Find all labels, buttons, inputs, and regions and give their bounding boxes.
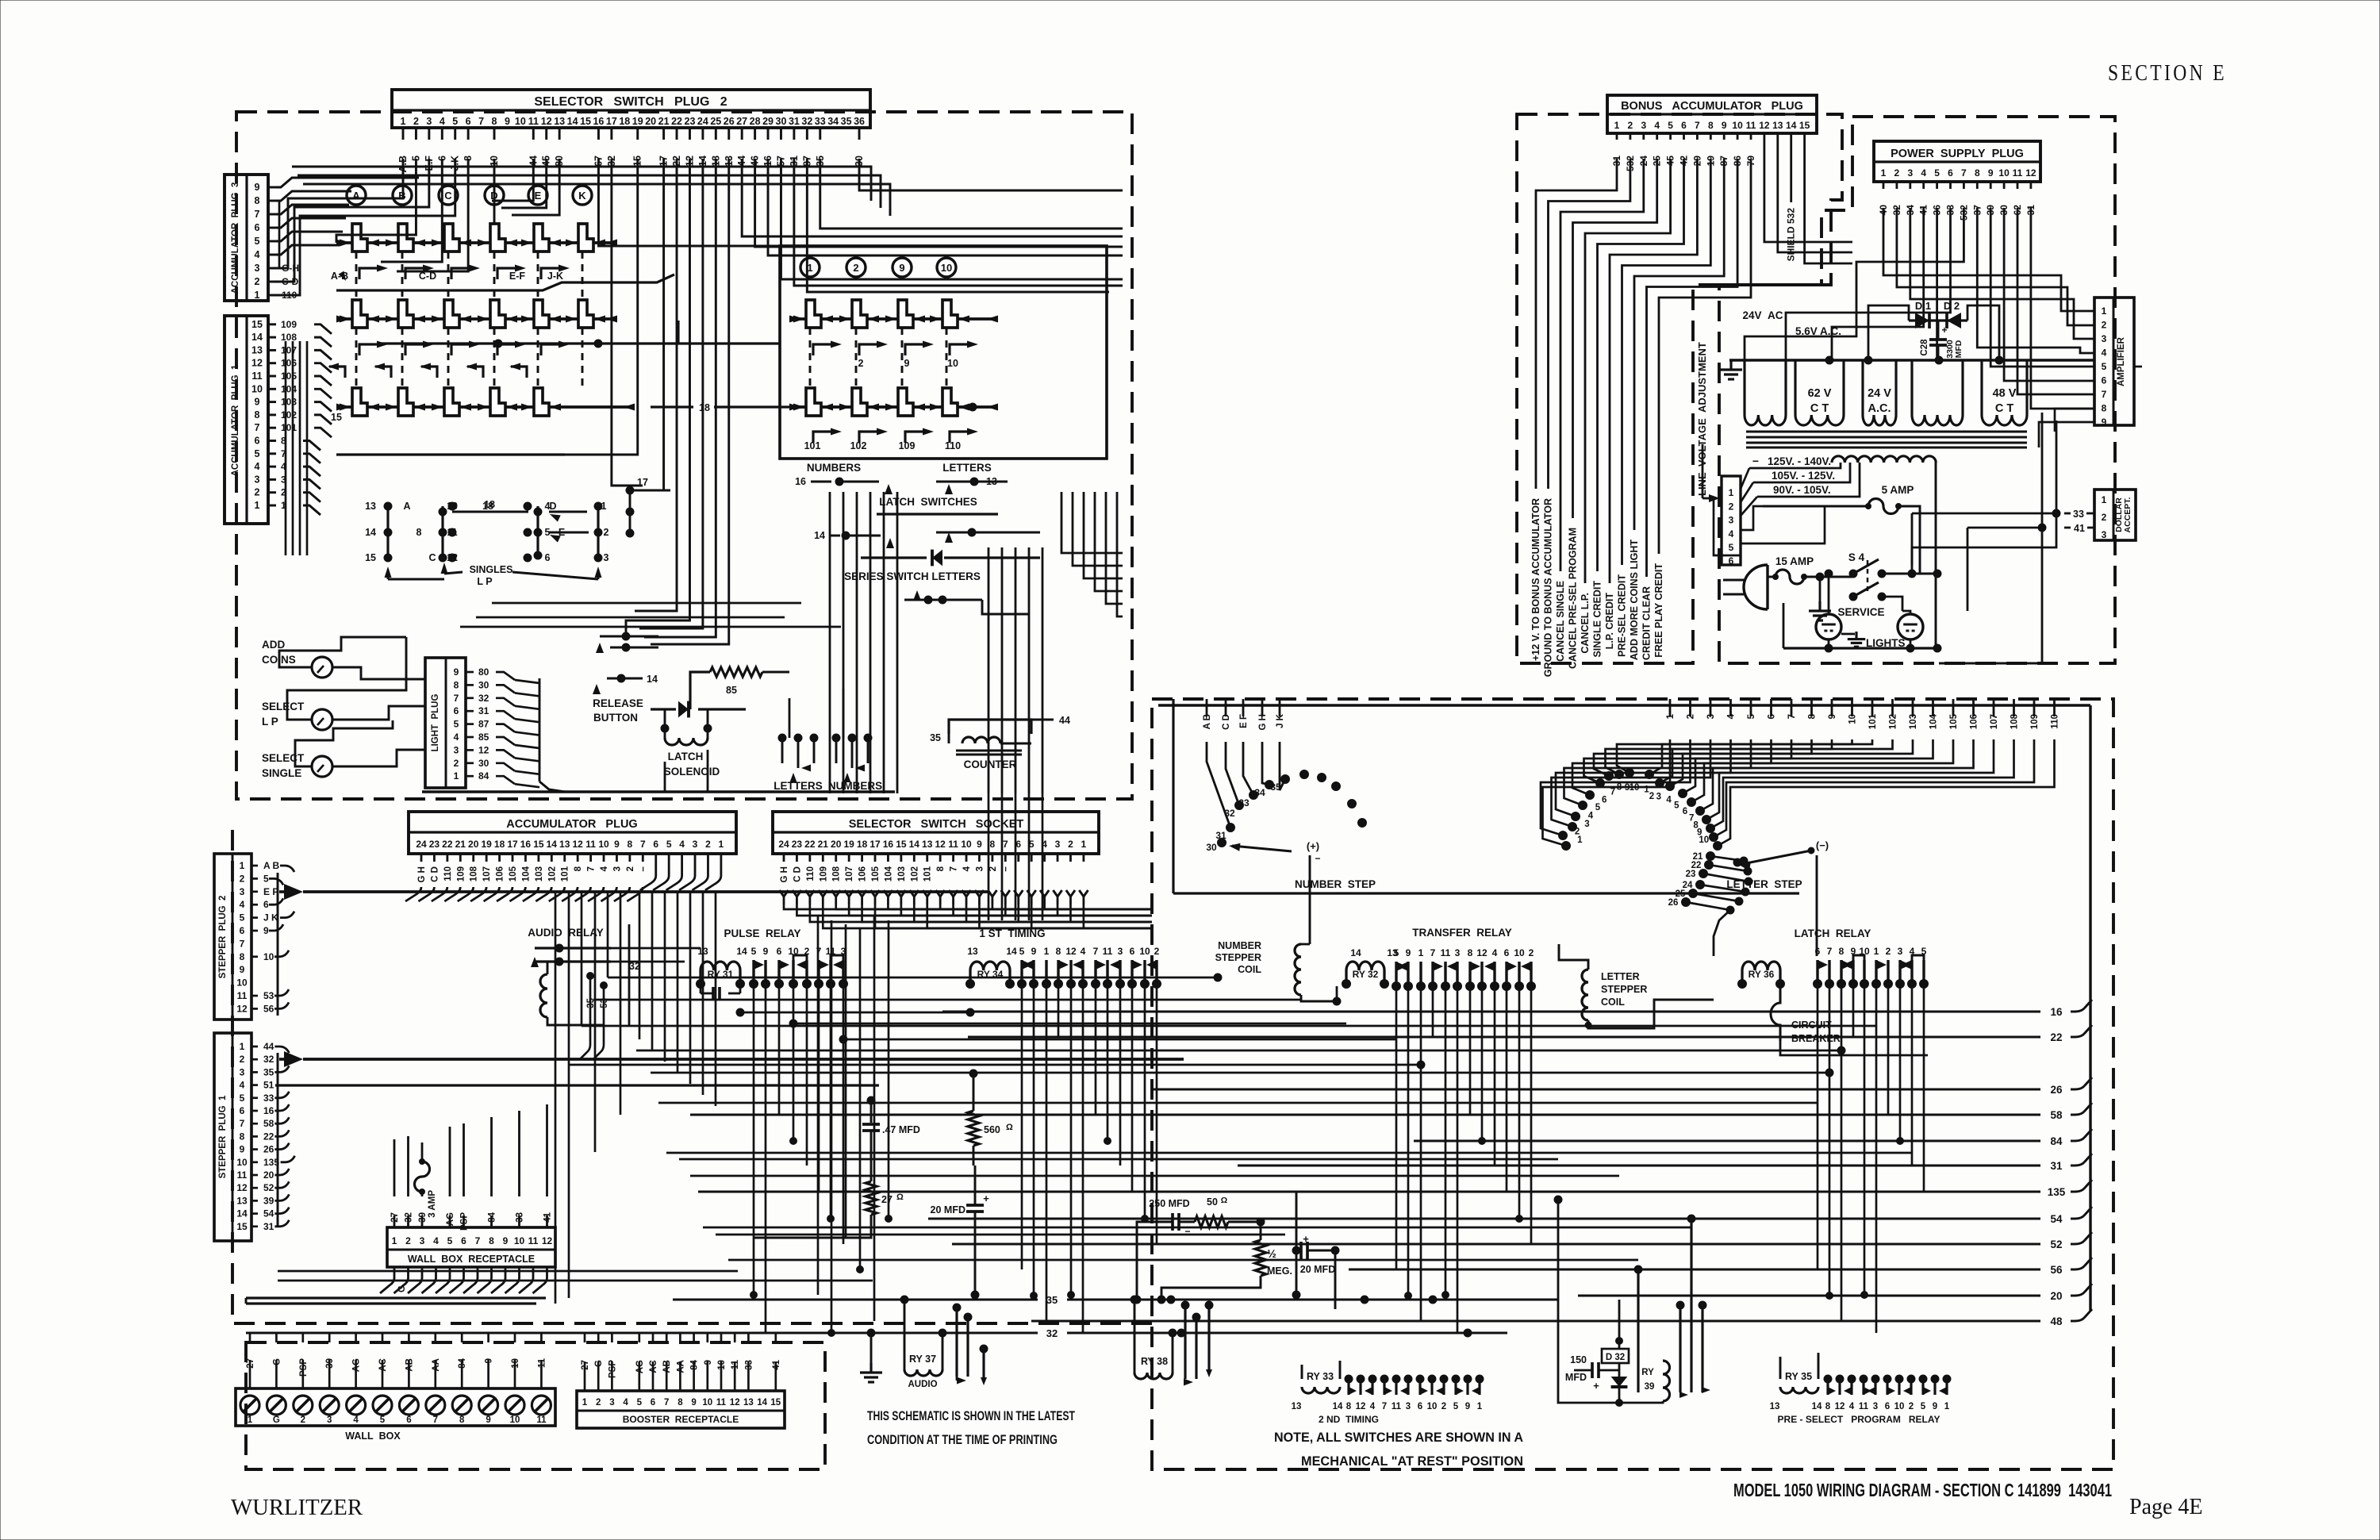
wall box receptacle lower hooks bbox=[380, 1267, 394, 1293]
svg-text:3: 3 bbox=[1055, 839, 1061, 850]
svg-text:4: 4 bbox=[240, 1080, 245, 1091]
svg-text:3: 3 bbox=[2102, 333, 2107, 344]
svg-text:560: 560 bbox=[984, 1124, 1000, 1135]
svg-text:8: 8 bbox=[1346, 1402, 1352, 1411]
svg-text:101: 101 bbox=[923, 866, 933, 881]
svg-text:109: 109 bbox=[899, 440, 916, 451]
svg-text:14: 14 bbox=[1006, 946, 1017, 957]
bonus plug wires to power section bbox=[1764, 133, 1852, 242]
letter switch row2 bus bbox=[381, 342, 780, 344]
svg-text:6: 6 bbox=[1948, 167, 1953, 179]
winding 24V AC bbox=[1861, 360, 1864, 415]
svg-text:PULSE RELAY: PULSE RELAY bbox=[724, 927, 800, 939]
svg-text:11: 11 bbox=[2013, 167, 2023, 179]
connector ACCUMULATOR PLUG 3 bbox=[225, 175, 268, 301]
svg-text:WURLITZER: WURLITZER bbox=[231, 1495, 363, 1520]
svg-text:E-F: E-F bbox=[509, 271, 526, 282]
connector BOOSTER RECEPTACLE bbox=[577, 1391, 785, 1428]
svg-text:104: 104 bbox=[281, 383, 297, 394]
svg-text:31: 31 bbox=[478, 705, 489, 716]
svg-text:9: 9 bbox=[263, 925, 269, 936]
svg-text:4: 4 bbox=[433, 1235, 439, 1246]
svg-text:125V. - 140V.: 125V. - 140V. bbox=[1768, 455, 1831, 467]
svg-text:21: 21 bbox=[818, 839, 829, 850]
svg-text:84: 84 bbox=[478, 770, 489, 782]
svg-text:4: 4 bbox=[679, 839, 685, 850]
svg-text:2: 2 bbox=[255, 487, 260, 498]
svg-text:3: 3 bbox=[693, 839, 698, 850]
inner bottom bus line bbox=[422, 790, 895, 793]
svg-text:5: 5 bbox=[1674, 801, 1679, 810]
svg-text:6: 6 bbox=[1729, 555, 1734, 566]
svg-text:(−): (−) bbox=[1816, 839, 1829, 851]
svg-text:7: 7 bbox=[587, 866, 597, 871]
svg-text:AUDIO: AUDIO bbox=[908, 1380, 937, 1389]
connector SELECTOR SWITCH SOCKET bbox=[773, 812, 1099, 854]
svg-text:6: 6 bbox=[240, 1105, 245, 1116]
svg-text:1 ST TIMING: 1 ST TIMING bbox=[979, 927, 1045, 939]
svg-text:39: 39 bbox=[263, 1195, 274, 1206]
svg-text:6: 6 bbox=[1683, 807, 1687, 816]
svg-text:1: 1 bbox=[392, 1235, 397, 1246]
svg-text:8: 8 bbox=[936, 866, 946, 871]
svg-text:1: 1 bbox=[1874, 946, 1879, 957]
svg-text:18: 18 bbox=[699, 402, 710, 413]
number step box lines bbox=[1172, 699, 1174, 893]
latch solenoid coil bbox=[665, 738, 708, 745]
svg-text:14: 14 bbox=[1812, 1402, 1822, 1411]
svg-text:1: 1 bbox=[454, 770, 459, 782]
svg-text:39: 39 bbox=[1645, 1382, 1655, 1392]
svg-text:6: 6 bbox=[466, 116, 471, 127]
svg-text:27: 27 bbox=[736, 116, 747, 127]
svg-text:D 32: D 32 bbox=[1606, 1353, 1625, 1362]
svg-text:48 V: 48 V bbox=[1993, 387, 2017, 400]
svg-text:6: 6 bbox=[1130, 946, 1135, 957]
svg-text:4: 4 bbox=[255, 461, 260, 472]
svg-text:23: 23 bbox=[792, 839, 803, 850]
svg-text:6: 6 bbox=[651, 1398, 655, 1408]
svg-text:D 2: D 2 bbox=[1944, 300, 1960, 312]
svg-text:6: 6 bbox=[1504, 947, 1510, 958]
svg-text:4: 4 bbox=[240, 899, 245, 910]
svg-text:10: 10 bbox=[702, 1398, 712, 1408]
bonus plug pin wire numbers bbox=[1616, 133, 1618, 140]
svg-text:20: 20 bbox=[831, 839, 842, 850]
svg-text:1: 1 bbox=[1577, 835, 1583, 845]
number switch row 1 bbox=[789, 317, 998, 321]
svg-text:CANCEL SINGLE: CANCEL SINGLE bbox=[1555, 581, 1566, 662]
svg-text:SECTION E: SECTION E bbox=[2108, 61, 2227, 86]
svg-text:10: 10 bbox=[515, 116, 526, 127]
svg-text:8: 8 bbox=[1708, 120, 1714, 131]
svg-text:10: 10 bbox=[510, 1415, 520, 1425]
svg-text:L P: L P bbox=[262, 716, 278, 728]
svg-text:3: 3 bbox=[255, 263, 260, 274]
svg-text:L P: L P bbox=[477, 576, 492, 587]
svg-text:3: 3 bbox=[612, 866, 622, 871]
svg-text:10: 10 bbox=[1139, 946, 1150, 957]
connector STEPPER PLUG 2 bbox=[214, 854, 251, 1020]
svg-text:10: 10 bbox=[961, 839, 972, 850]
svg-text:56: 56 bbox=[2050, 1264, 2063, 1276]
release button switch bbox=[596, 643, 604, 653]
svg-text:10: 10 bbox=[514, 1235, 525, 1246]
svg-text:6: 6 bbox=[255, 222, 260, 233]
svg-text:5: 5 bbox=[263, 873, 269, 884]
svg-text:8: 8 bbox=[416, 527, 422, 538]
svg-text:7: 7 bbox=[664, 1398, 669, 1408]
svg-text:9: 9 bbox=[240, 1144, 245, 1155]
svg-text:SINGLE CREDIT: SINGLE CREDIT bbox=[1592, 581, 1603, 658]
power bottom bus bbox=[1783, 647, 1937, 649]
svg-text:SELECT: SELECT bbox=[262, 701, 305, 712]
svg-text:36: 36 bbox=[854, 116, 865, 127]
svg-text:6: 6 bbox=[240, 925, 245, 936]
ground transformer bbox=[1729, 360, 1732, 370]
svg-text:5: 5 bbox=[637, 1398, 643, 1408]
svg-text:D 1: D 1 bbox=[1915, 300, 1931, 312]
svg-text:9: 9 bbox=[240, 964, 245, 975]
svg-text:22: 22 bbox=[804, 839, 816, 850]
number switch group box bbox=[780, 246, 1107, 459]
svg-text:2: 2 bbox=[1886, 946, 1891, 957]
letters and numbers latch contacts bbox=[778, 734, 786, 742]
dashed border power supply section bbox=[1719, 117, 2115, 663]
svg-text:4: 4 bbox=[2102, 348, 2107, 359]
svg-text:5: 5 bbox=[255, 448, 260, 459]
svg-text:7: 7 bbox=[475, 1235, 481, 1246]
svg-text:30: 30 bbox=[478, 679, 489, 690]
letter switch row 2 risers bbox=[359, 344, 382, 355]
connector WALL BOX RECEPTACLE bbox=[387, 1227, 555, 1267]
svg-text:7: 7 bbox=[1003, 839, 1008, 850]
svg-text:10: 10 bbox=[236, 977, 248, 989]
svg-text:4: 4 bbox=[600, 866, 609, 871]
svg-text:LATCH SWITCHES: LATCH SWITCHES bbox=[879, 496, 977, 508]
svg-text:11: 11 bbox=[1859, 1402, 1869, 1411]
svg-text:33: 33 bbox=[2073, 509, 2084, 520]
svg-text:13: 13 bbox=[743, 1398, 754, 1408]
dashed border bottom-left stepper section bbox=[232, 830, 1152, 1323]
svg-text:STEPPER PLUG 1: STEPPER PLUG 1 bbox=[218, 1095, 228, 1178]
svg-text:RY 32: RY 32 bbox=[1353, 969, 1379, 980]
horizontal links lower area bbox=[492, 602, 801, 605]
svg-text:4: 4 bbox=[1729, 528, 1734, 540]
svg-text:12: 12 bbox=[1356, 1402, 1366, 1411]
svg-text:G: G bbox=[273, 1415, 280, 1425]
svg-text:11: 11 bbox=[237, 990, 248, 1001]
svg-text:20: 20 bbox=[468, 839, 479, 850]
connector BONUS ACCUMULATOR PLUG bbox=[1607, 95, 1817, 133]
connector SELECTOR SWITCH PLUG 2 bbox=[392, 90, 870, 128]
svg-text:9: 9 bbox=[1465, 1402, 1470, 1411]
svg-text:6: 6 bbox=[263, 899, 269, 910]
svg-text:J K: J K bbox=[263, 912, 278, 924]
svg-text:14: 14 bbox=[1350, 947, 1361, 958]
svg-text:16: 16 bbox=[263, 1105, 274, 1116]
svg-text:PRE - SELECT PROGRAM RELAY: PRE - SELECT PROGRAM RELAY bbox=[1778, 1414, 1940, 1425]
svg-text:105V. - 125V.: 105V. - 125V. bbox=[1772, 470, 1835, 482]
svg-text:S 4: S 4 bbox=[1848, 551, 1865, 563]
svg-text:3 AMP: 3 AMP bbox=[428, 1190, 437, 1218]
svg-text:9: 9 bbox=[1722, 120, 1727, 131]
svg-text:SELECT: SELECT bbox=[262, 752, 305, 764]
svg-text:8: 8 bbox=[990, 839, 996, 850]
svg-text:11: 11 bbox=[1746, 120, 1756, 131]
wire trunk light plug bbox=[539, 678, 541, 782]
svg-text:7: 7 bbox=[1827, 946, 1833, 957]
svg-text:32: 32 bbox=[478, 693, 489, 704]
svg-text:12: 12 bbox=[730, 1398, 740, 1408]
svg-text:3: 3 bbox=[454, 744, 459, 755]
wire 51 from stepper plug 1 bbox=[275, 1084, 879, 1086]
svg-text:44: 44 bbox=[263, 1041, 274, 1052]
svg-text:23: 23 bbox=[685, 116, 696, 127]
svg-text:41: 41 bbox=[2074, 523, 2085, 534]
svg-text:5: 5 bbox=[666, 839, 672, 850]
svg-text:32: 32 bbox=[1046, 1327, 1058, 1339]
svg-text:7: 7 bbox=[2102, 389, 2107, 400]
svg-text:14: 14 bbox=[814, 530, 825, 541]
svg-text:13: 13 bbox=[1772, 120, 1783, 131]
winding 48V CT bbox=[1980, 360, 1983, 415]
svg-text:8: 8 bbox=[1056, 946, 1061, 957]
svg-text:2: 2 bbox=[301, 1415, 305, 1425]
svg-text:4: 4 bbox=[623, 1398, 628, 1408]
svg-text:54: 54 bbox=[263, 1208, 274, 1219]
svg-text:4: 4 bbox=[1849, 1402, 1855, 1411]
svg-text:3: 3 bbox=[1118, 946, 1123, 957]
svg-text:5: 5 bbox=[454, 719, 459, 730]
svg-text:6: 6 bbox=[1815, 946, 1821, 957]
svg-text:110: 110 bbox=[443, 866, 453, 881]
resistor 85 bbox=[710, 667, 762, 677]
svg-text:NUMBER STEP: NUMBER STEP bbox=[1295, 878, 1376, 890]
svg-text:LIGHT PLUG: LIGHT PLUG bbox=[431, 694, 440, 752]
svg-text:8: 8 bbox=[459, 1415, 465, 1425]
svg-text:CANCEL PRE-SEL PROGRAM: CANCEL PRE-SEL PROGRAM bbox=[1568, 528, 1579, 669]
svg-text:9: 9 bbox=[454, 666, 459, 678]
svg-text:20: 20 bbox=[263, 1169, 274, 1181]
svg-text:23: 23 bbox=[429, 839, 440, 850]
svg-text:109: 109 bbox=[819, 866, 828, 881]
wire 35 long run bbox=[673, 1299, 1038, 1301]
stepper plug 1 pin hooks bbox=[274, 1047, 289, 1053]
svg-text:SINGLE: SINGLE bbox=[262, 767, 301, 779]
svg-text:8: 8 bbox=[240, 951, 245, 962]
svg-text:COIL: COIL bbox=[1238, 964, 1261, 975]
svg-text:E: E bbox=[535, 190, 542, 202]
svg-text:NOTE, ALL SWITCHES ARE SHOWN I: NOTE, ALL SWITCHES ARE SHOWN IN A bbox=[1274, 1430, 1523, 1445]
svg-text:ACCUMULATOR PLUG 1: ACCUMULATOR PLUG 1 bbox=[231, 364, 240, 476]
svg-text:2: 2 bbox=[2102, 320, 2107, 331]
staircase wires to right border bbox=[1061, 492, 1123, 553]
dashed border bonus accumulator section bbox=[1517, 114, 1842, 663]
svg-text:7: 7 bbox=[1382, 1402, 1387, 1411]
svg-text:15: 15 bbox=[896, 839, 907, 850]
connector ACCUMULATOR PLUG 1 bbox=[225, 316, 268, 524]
svg-text:14: 14 bbox=[567, 116, 578, 127]
svg-text:7: 7 bbox=[640, 839, 646, 850]
svg-text:CONDITION AT THE TIME OF PRINT: CONDITION AT THE TIME OF PRINTING bbox=[867, 1432, 1058, 1447]
svg-text:13: 13 bbox=[251, 344, 263, 355]
svg-text:10: 10 bbox=[598, 839, 609, 850]
svg-text:102: 102 bbox=[910, 866, 919, 881]
wires accumulator plug 3 pins to mesh bbox=[276, 245, 340, 255]
svg-text:1: 1 bbox=[1477, 1402, 1483, 1411]
svg-text:17: 17 bbox=[606, 116, 617, 127]
svg-text:2: 2 bbox=[1068, 839, 1073, 850]
number switch column dashed links bbox=[809, 328, 812, 386]
svg-text:3: 3 bbox=[1641, 120, 1646, 131]
svg-text:5: 5 bbox=[380, 1415, 386, 1425]
svg-text:135: 135 bbox=[2048, 1186, 2066, 1198]
svg-text:105: 105 bbox=[281, 371, 297, 382]
svg-text:14: 14 bbox=[1786, 120, 1797, 131]
svg-text:2: 2 bbox=[240, 1054, 245, 1065]
svg-text:MODEL 1050 WIRING DIAGRAM - SE: MODEL 1050 WIRING DIAGRAM - SECTION C 14… bbox=[1733, 1480, 2112, 1500]
svg-text:15: 15 bbox=[533, 839, 544, 850]
svg-text:104: 104 bbox=[521, 866, 531, 881]
svg-text:2: 2 bbox=[405, 1235, 411, 1246]
svg-text:22: 22 bbox=[671, 116, 682, 127]
transformer core lines bbox=[1746, 431, 2027, 433]
svg-text:WALL BOX RECEPTACLE: WALL BOX RECEPTACLE bbox=[408, 1254, 535, 1265]
svg-text:2: 2 bbox=[454, 758, 459, 769]
winding mid bbox=[1910, 360, 1913, 415]
amplifier side wires bbox=[2055, 409, 2094, 432]
svg-text:10: 10 bbox=[1514, 947, 1525, 958]
svg-text:SERIES SWITCH LETTERS: SERIES SWITCH LETTERS bbox=[844, 570, 981, 582]
svg-text:31: 31 bbox=[789, 116, 800, 127]
svg-text:80: 80 bbox=[478, 666, 489, 678]
svg-text:−: − bbox=[1315, 853, 1320, 864]
svg-text:9: 9 bbox=[505, 116, 510, 127]
bonus accumulator signal wires and rotated labels bbox=[1536, 159, 1617, 489]
svg-text:8: 8 bbox=[454, 679, 459, 690]
svg-text:RY 38: RY 38 bbox=[1141, 1356, 1168, 1367]
svg-text:L.P. CREDIT: L.P. CREDIT bbox=[1604, 593, 1615, 650]
svg-text:14: 14 bbox=[736, 946, 747, 957]
svg-text:6: 6 bbox=[545, 552, 551, 563]
svg-text:12: 12 bbox=[572, 839, 583, 850]
svg-text:33: 33 bbox=[815, 116, 826, 127]
svg-text:101: 101 bbox=[804, 440, 821, 451]
selector letter switch bank labels A B C D E K bbox=[347, 186, 366, 205]
svg-text:5: 5 bbox=[1019, 946, 1025, 957]
svg-text:29: 29 bbox=[762, 116, 773, 127]
svg-text:12: 12 bbox=[236, 1003, 248, 1014]
svg-text:110: 110 bbox=[945, 440, 961, 451]
svg-text:1: 1 bbox=[719, 839, 724, 850]
svg-text:105: 105 bbox=[509, 866, 518, 881]
svg-text:7: 7 bbox=[255, 209, 260, 220]
svg-text:LATCH RELAY: LATCH RELAY bbox=[1795, 927, 1871, 939]
svg-text:G H: G H bbox=[417, 866, 427, 882]
capacitor .47 MFD bbox=[870, 1100, 873, 1123]
svg-text:6: 6 bbox=[1418, 1402, 1422, 1411]
svg-text:10: 10 bbox=[1732, 120, 1743, 131]
svg-text:106: 106 bbox=[281, 358, 297, 369]
svg-text:14: 14 bbox=[757, 1398, 767, 1408]
svg-text:MFD: MFD bbox=[1954, 340, 1963, 358]
svg-text:13: 13 bbox=[922, 839, 933, 850]
svg-text:11: 11 bbox=[585, 839, 596, 850]
svg-text:16: 16 bbox=[593, 116, 604, 127]
svg-text:13: 13 bbox=[365, 501, 376, 512]
svg-text:STEPPER: STEPPER bbox=[1601, 984, 1647, 995]
svg-text:16: 16 bbox=[795, 476, 806, 487]
svg-text:4: 4 bbox=[454, 732, 459, 743]
svg-text:−: − bbox=[1752, 455, 1759, 467]
svg-text:6: 6 bbox=[1681, 120, 1687, 131]
svg-text:7: 7 bbox=[1093, 946, 1099, 957]
svg-text:10: 10 bbox=[1998, 167, 2010, 179]
svg-text:11: 11 bbox=[528, 1235, 539, 1246]
svg-text:7: 7 bbox=[454, 693, 459, 704]
svg-text:44: 44 bbox=[1059, 715, 1070, 726]
svg-text:RELEASE: RELEASE bbox=[593, 697, 643, 709]
svg-text:7: 7 bbox=[950, 866, 959, 871]
svg-text:9: 9 bbox=[486, 1415, 490, 1425]
svg-text:½: ½ bbox=[1267, 1247, 1276, 1260]
svg-text:3: 3 bbox=[1406, 1402, 1411, 1411]
wire 17 in matrix bbox=[630, 490, 664, 492]
bonus plug shield 532 bbox=[1790, 133, 1792, 202]
svg-text:BREAKER: BREAKER bbox=[1791, 1033, 1841, 1044]
svg-text:SERVICE: SERVICE bbox=[1837, 606, 1884, 618]
letter switch row 1 bbox=[336, 241, 617, 244]
svg-text:14: 14 bbox=[909, 839, 920, 850]
svg-text:2: 2 bbox=[240, 873, 245, 884]
svg-text:G H: G H bbox=[780, 866, 789, 882]
svg-text:35: 35 bbox=[1046, 1294, 1058, 1306]
svg-text:9: 9 bbox=[255, 182, 260, 193]
svg-text:15: 15 bbox=[331, 412, 342, 423]
svg-text:23: 23 bbox=[1686, 870, 1696, 879]
svg-text:LATCH: LATCH bbox=[668, 751, 704, 762]
selector socket pin labels and socket arrows bbox=[783, 854, 785, 862]
svg-text:5: 5 bbox=[1729, 542, 1734, 553]
svg-text:1: 1 bbox=[2102, 494, 2107, 505]
svg-text:34: 34 bbox=[1254, 787, 1265, 798]
svg-text:C T: C T bbox=[1810, 402, 1829, 415]
svg-text:NUMBERS: NUMBERS bbox=[828, 780, 882, 792]
svg-text:6: 6 bbox=[653, 839, 658, 850]
svg-text:6: 6 bbox=[461, 1235, 466, 1246]
svg-text:LETTER STEP: LETTER STEP bbox=[1726, 878, 1802, 890]
svg-text:7: 7 bbox=[240, 938, 245, 949]
svg-text:8: 8 bbox=[1468, 947, 1473, 958]
svg-text:5: 5 bbox=[2102, 361, 2107, 372]
svg-text:5: 5 bbox=[452, 116, 458, 127]
svg-text:4: 4 bbox=[440, 116, 445, 127]
svg-text:35: 35 bbox=[263, 1066, 274, 1077]
svg-text:18: 18 bbox=[494, 839, 505, 850]
svg-text:53: 53 bbox=[263, 990, 274, 1001]
svg-text:108: 108 bbox=[281, 332, 297, 343]
letter switch row3 bus bbox=[336, 453, 565, 455]
svg-text:10: 10 bbox=[1894, 1402, 1905, 1411]
svg-text:102: 102 bbox=[547, 866, 557, 881]
svg-text:12: 12 bbox=[2025, 167, 2036, 179]
svg-text:9: 9 bbox=[1933, 1402, 1937, 1411]
svg-text:1: 1 bbox=[1881, 167, 1887, 179]
svg-text:108: 108 bbox=[470, 866, 479, 881]
accumulator plug pin labels and hooks bbox=[420, 854, 423, 862]
svg-text:9: 9 bbox=[1988, 167, 1994, 179]
